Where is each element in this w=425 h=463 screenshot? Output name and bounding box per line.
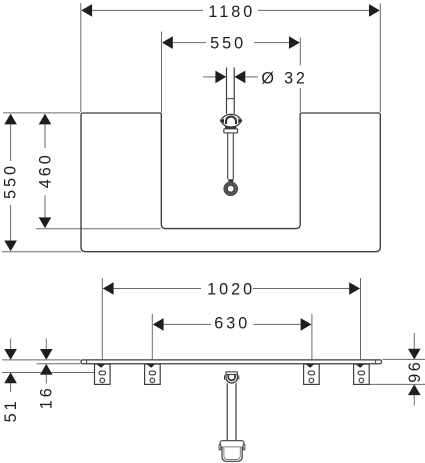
wall bracket 4 [354,364,370,384]
svg-text:51: 51 [2,398,20,422]
extension line top-left (console top edge) [3,112,80,114]
drain tail pipe (top view) [227,133,229,179]
svg-text:1020: 1020 [207,280,255,298]
dimension 51 [10,339,12,350]
siphon cup inner line [224,447,240,459]
dimension 630 [153,318,164,331]
right extension line slab top [383,358,425,360]
dimension 1020 [103,282,114,295]
siphon cup left ear [219,445,221,450]
drain valve dark band [225,126,236,128]
siphon pipe [226,383,228,440]
extension line 630 right [311,314,313,359]
left extension line slab bottom [37,363,81,365]
drain valve right tip [238,119,242,124]
dimension 1180 [81,4,92,17]
siphon clamp U inner [228,375,235,381]
dimension diameter 32 [203,76,216,78]
svg-text:630: 630 [214,314,250,332]
svg-text:460: 460 [36,152,54,188]
siphon clamp left lug [224,375,226,379]
drain outlet tab [228,179,233,182]
drain valve left tip [221,119,225,124]
drain outlet ring [224,182,237,195]
left extension line bracket slot [2,372,94,374]
wall bracket 1 [95,364,111,384]
svg-text:Ø 32: Ø 32 [261,69,307,87]
siphon cup right ear [243,445,245,450]
dimension 550 top [162,36,173,49]
drain pipe (top view) [226,68,228,114]
drain valve lens body [221,114,242,127]
dimension 16 [45,339,47,350]
left extension line slab top [2,359,81,361]
extension line 1180 left [80,3,82,112]
extension line 1020 left [101,278,103,359]
svg-text:96: 96 [406,360,424,383]
siphon clamp right lug [238,375,240,379]
basin recess cutout [161,113,300,229]
siphon cup body [222,447,242,461]
svg-text:16: 16 [38,385,56,409]
slab right end cap [375,360,377,363]
extension line recess bottom left [36,228,161,230]
siphon top clamp cap [226,372,237,375]
wall bracket 2 [145,364,161,384]
extension line 1020 right [360,278,362,359]
siphon clamp U outer [226,375,238,383]
console outline (top view) [81,113,380,252]
extension line 1180 right [379,3,381,112]
extension line 550 left [161,32,163,113]
drain valve inner ring [226,117,236,124]
extension line 630 left [151,314,153,359]
console slab (front view) [81,360,382,364]
slab left end cap [86,360,88,363]
svg-text:1180: 1180 [208,3,255,21]
wall bracket 3 [304,364,320,384]
dimension 96 [413,333,415,349]
dimension 550 vertical left [4,114,17,125]
siphon cup collar [220,441,244,448]
extension line 550 right [299,38,301,66]
dimension 460 vertical [39,114,52,125]
svg-text:550: 550 [210,35,246,53]
drain pipe joint tick [227,98,235,100]
svg-text:550: 550 [2,163,20,199]
drain valve nut [224,129,238,133]
right extension line bracket bottom [369,383,425,385]
extension line console front edge left [2,251,81,253]
